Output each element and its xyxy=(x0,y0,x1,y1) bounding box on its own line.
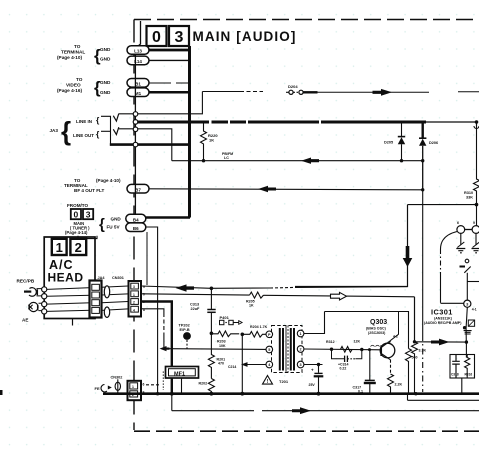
MF1 stub to bus xyxy=(181,378,183,394)
ceramic filter X302 xyxy=(464,320,475,334)
wire y160 xyxy=(172,160,423,162)
svg-text:GND: GND xyxy=(100,57,111,62)
svg-text:FE: FE xyxy=(95,386,100,391)
svg-text:REC/PB: REC/PB xyxy=(17,279,35,284)
svg-text:4-2: 4-2 xyxy=(393,335,398,339)
T201 pin 1 xyxy=(297,330,304,337)
ground RT302 xyxy=(472,249,479,253)
svg-text:B7: B7 xyxy=(135,187,141,192)
thick shield wire bottom xyxy=(110,143,190,146)
wire x242 down to bus xyxy=(241,334,243,393)
connector oval M1 xyxy=(127,88,149,97)
border hook at title left xyxy=(135,21,141,49)
svg-text:D205: D205 xyxy=(384,141,393,145)
collector wire up to y311 xyxy=(391,312,399,341)
svg-text:AE: AE xyxy=(22,318,28,323)
T201 windings and core xyxy=(280,326,294,373)
svg-text:BF 4 OUT FLT: BF 4 OUT FLT xyxy=(74,188,104,193)
svg-text:C313: C313 xyxy=(190,303,199,307)
svg-text:FROM/TO: FROM/TO xyxy=(67,203,89,208)
row4 wire down xyxy=(141,309,164,349)
svg-text:3: 3 xyxy=(86,209,91,219)
label 4-2 xyxy=(393,335,398,339)
wire down to pin3 xyxy=(466,282,468,301)
warning triangle xyxy=(263,376,273,386)
shield bracket line in/out xyxy=(101,116,111,144)
svg-text:TERMINAL: TERMINAL xyxy=(61,50,85,55)
svg-text:E/P-B: E/P-B xyxy=(180,328,190,332)
svg-text:5: 5 xyxy=(268,348,270,352)
svg-text:B4: B4 xyxy=(133,217,139,222)
svg-text:6: 6 xyxy=(143,382,145,386)
svg-text:R312: R312 xyxy=(326,340,335,344)
wire y410 with right arrow xyxy=(172,394,479,414)
twisted pair loop 2 xyxy=(104,307,109,317)
svg-text:(AUDIO REC/PB AMP): (AUDIO REC/PB AMP) xyxy=(424,321,462,325)
capacitor C317 xyxy=(353,350,376,394)
wire x414 down xyxy=(414,297,416,342)
svg-text:CN302: CN302 xyxy=(111,376,123,380)
wire pin2 right xyxy=(304,348,381,351)
wire B6 5V to right then down xyxy=(146,227,158,394)
svg-text:R202: R202 xyxy=(199,382,208,386)
svg-text:R204 1.7K: R204 1.7K xyxy=(250,325,268,329)
pin number labels CN301 xyxy=(133,285,145,312)
svg-text:(Page 4-10): (Page 4-10) xyxy=(57,55,82,60)
svg-text:1: 1 xyxy=(133,293,135,297)
T201 pin 2 xyxy=(297,346,304,353)
GND bus vertical thick xyxy=(188,46,191,218)
svg-text:6: 6 xyxy=(457,221,459,225)
MF1 box xyxy=(166,367,199,379)
svg-text:MAIN [AUDIO]: MAIN [AUDIO] xyxy=(193,29,297,44)
svg-text:R310: R310 xyxy=(464,191,473,195)
label AE xyxy=(22,318,28,323)
CR box stub to bus xyxy=(461,378,463,394)
junction dot pin3 xyxy=(317,363,320,366)
svg-text:4-1: 4-1 xyxy=(472,308,477,312)
svg-text:HEAD: HEAD xyxy=(48,271,84,285)
IC pin circle 3 xyxy=(464,300,477,311)
test point TP202 xyxy=(179,324,191,349)
svg-text:LC: LC xyxy=(224,156,229,160)
ferrite bead marks on base wire xyxy=(371,345,380,346)
bottom bus thick xyxy=(103,392,479,395)
resistor R310 right column xyxy=(464,124,479,205)
svg-text:TP202: TP202 xyxy=(179,324,190,328)
digit box 1 xyxy=(52,239,67,255)
resistor R316 xyxy=(465,355,473,378)
capacitor C318 xyxy=(451,355,460,378)
text A/C HEAD xyxy=(48,258,84,285)
title text MAIN [AUDIO] xyxy=(193,29,297,44)
resistor R220 xyxy=(201,122,219,161)
svg-text:0: 0 xyxy=(143,293,145,297)
wire y349 left segment to T201 pin5 xyxy=(169,348,266,351)
wire y341 with right arrow xyxy=(415,339,467,346)
svg-text:GND: GND xyxy=(100,80,111,85)
stub bus to y400 line xyxy=(407,394,409,401)
T201 pin 4 xyxy=(266,361,273,368)
arrow left on y160 wire xyxy=(301,158,319,164)
label on y160 wire xyxy=(222,152,233,160)
main thick bus y122 xyxy=(0,0,1,1)
capacitor C313 xyxy=(190,288,216,333)
svg-text:10K: 10K xyxy=(219,344,226,348)
thick left arrow row1 xyxy=(176,284,195,291)
transistor Q303 xyxy=(380,340,395,360)
junction dots pin2 wire xyxy=(330,348,371,352)
junction dot resistor bottom xyxy=(202,159,205,162)
edge artifact left xyxy=(0,390,3,395)
svg-text:GND: GND xyxy=(100,90,111,95)
curve from trimmer to x440 xyxy=(441,232,464,304)
jack contact V line out xyxy=(113,127,119,134)
A/C HEAD box xyxy=(44,237,95,319)
resistor R312 inline xyxy=(326,340,360,353)
connector oval L13 xyxy=(127,46,149,55)
svg-text:1K: 1K xyxy=(209,138,214,143)
wires inside A/C head box xyxy=(47,288,92,312)
transformer T201 dashed box xyxy=(272,326,303,373)
svg-text:T201: T201 xyxy=(279,379,289,384)
connector CN302 xyxy=(128,381,145,400)
svg-text:LINE OUT: LINE OUT xyxy=(73,133,94,138)
svg-text:1: 1 xyxy=(300,332,302,336)
border: left dashed PCB boundary xyxy=(133,20,135,431)
transistor Q303 labels xyxy=(366,319,387,335)
title digit box 3 xyxy=(169,26,189,46)
bus right end hook xyxy=(474,120,479,128)
connector oval B6 xyxy=(126,223,146,232)
row2 wire REC signal long xyxy=(141,294,415,297)
svg-text:IC301: IC301 xyxy=(431,308,453,317)
border: bottom dashed PCB boundary xyxy=(134,430,479,432)
wire M1 to GND bus (thick) xyxy=(149,91,190,94)
emitter chain down xyxy=(388,360,403,394)
T201 pin 5 xyxy=(266,346,273,353)
wire y204 xyxy=(408,204,477,206)
svg-text:GND: GND xyxy=(111,217,122,222)
signal wire with big down arrow x407 xyxy=(295,205,412,287)
arrow right on y92 wire xyxy=(373,89,393,96)
connector oval B7 xyxy=(127,184,149,193)
wire L13 to GND bus (thick) xyxy=(149,49,190,52)
trimmer RT302 xyxy=(472,221,479,248)
svg-text:(Page 4-16): (Page 4-16) xyxy=(57,88,82,93)
FE head xyxy=(95,379,121,393)
svg-text:25V: 25V xyxy=(309,383,316,387)
svg-text:VIDEO: VIDEO xyxy=(66,83,81,88)
svg-text:R316: R316 xyxy=(465,373,473,377)
svg-text:B1: B1 xyxy=(135,82,141,87)
wire L14 xyxy=(149,59,189,61)
row3 GND wire thick L xyxy=(141,302,172,394)
svg-text:0.22: 0.22 xyxy=(340,367,347,371)
wire B1 xyxy=(149,82,189,84)
border: top dashed PCB boundary xyxy=(134,19,479,21)
svg-text:L13: L13 xyxy=(134,49,142,54)
IC301 labels xyxy=(424,308,462,325)
junction dot y190 xyxy=(421,188,424,191)
node circles on box edge xyxy=(42,287,47,314)
trimmer RT301 xyxy=(457,221,465,248)
junction dot x414 y341 xyxy=(413,340,416,343)
junction dot y342 xyxy=(465,340,468,343)
label T201 xyxy=(279,379,289,384)
svg-text:1K: 1K xyxy=(249,304,254,308)
label: TO VIDEO (Page 4-16) xyxy=(57,77,111,97)
svg-text:1: 1 xyxy=(132,385,134,389)
junction dot row1/C313 xyxy=(210,287,214,291)
connector JA4 xyxy=(90,276,106,318)
resistor R315 xyxy=(412,342,427,394)
label REC/PB xyxy=(17,279,35,284)
head symbol REC/PB xyxy=(24,288,42,297)
svg-text:!: ! xyxy=(267,379,269,385)
node circle jack2 xyxy=(133,120,138,125)
wire from D204 right xyxy=(303,91,479,94)
svg-text:{: { xyxy=(99,216,105,233)
resistor R313 osc feedback xyxy=(406,349,418,394)
wire B7 long to right xyxy=(149,189,423,190)
svg-text:2.2K: 2.2K xyxy=(395,383,403,387)
node circle jack4 xyxy=(133,142,138,147)
svg-text:MF1: MF1 xyxy=(174,371,185,377)
component X301 with slash xyxy=(460,259,471,281)
svg-text:3: 3 xyxy=(175,29,184,46)
wire down into CR box xyxy=(465,342,467,357)
jumper D204 xyxy=(286,84,303,94)
svg-text:D204: D204 xyxy=(288,84,298,89)
bracket under page ref xyxy=(78,236,97,239)
svg-text:Q303: Q303 xyxy=(370,319,387,326)
svg-text:CN301: CN301 xyxy=(112,276,124,280)
connector oval B4 xyxy=(126,214,146,223)
box bottom tick xyxy=(72,319,74,326)
connector oval B1 xyxy=(127,79,149,88)
svg-text:2: 2 xyxy=(133,301,135,305)
svg-text:9: 9 xyxy=(473,221,475,225)
wire pin3 down xyxy=(466,307,467,342)
wire stub x147 xyxy=(146,232,148,285)
label: TO TERMINAL (Page 4-10) xyxy=(57,44,111,65)
svg-text:D206: D206 xyxy=(429,141,438,145)
wire line-in tip xyxy=(119,92,203,114)
svg-text:JA3: JA3 xyxy=(50,128,59,133)
svg-text:C214: C214 xyxy=(228,365,236,369)
digit box 2 xyxy=(70,239,86,255)
diode D205 xyxy=(384,122,405,161)
junction dots on y160 xyxy=(400,159,425,162)
row1 wire PB signal xyxy=(141,286,408,288)
connector CN301 xyxy=(112,276,141,316)
node circle jack3 xyxy=(133,127,138,132)
GND bus bottom horizontal to B4 xyxy=(146,216,190,219)
svg-text:3: 3 xyxy=(300,363,302,367)
junction dot (476,205) xyxy=(475,203,479,207)
svg-text:GND: GND xyxy=(100,47,111,52)
CR network box xyxy=(450,355,475,379)
T201 pin 3 xyxy=(297,361,304,368)
svg-text:P401: P401 xyxy=(220,315,230,320)
svg-text:2: 2 xyxy=(75,240,82,255)
small left arrow at row4 corner xyxy=(160,346,170,351)
capacitor C315 electrolytic xyxy=(309,365,324,394)
wire line-out tip to corner xyxy=(119,129,172,161)
svg-text:3.3K: 3.3K xyxy=(419,349,427,353)
ground RT301 xyxy=(456,249,465,253)
jack contact V line in xyxy=(113,114,119,121)
svg-text:TO: TO xyxy=(74,44,81,49)
plug P401 xyxy=(220,315,243,325)
resistor R203 xyxy=(213,331,239,348)
svg-text:33K: 33K xyxy=(466,196,473,200)
connector oval L14 xyxy=(127,56,149,65)
resistor R202 vertical xyxy=(199,379,215,394)
main left vertical wire xyxy=(134,54,136,215)
svg-text:B6: B6 xyxy=(133,226,139,231)
C314 loop branch xyxy=(332,349,362,370)
digit box 3 small xyxy=(83,209,93,219)
head symbol AE (erase) xyxy=(28,302,42,311)
svg-text:1: 1 xyxy=(56,240,63,255)
node circle jack1 xyxy=(133,112,138,117)
twisted pair loop 1 xyxy=(104,286,109,298)
svg-text:0: 0 xyxy=(74,209,79,219)
svg-text:(Page 4-10): (Page 4-10) xyxy=(96,178,121,183)
junction dot R203/R204 xyxy=(241,333,245,337)
svg-text:+: + xyxy=(311,367,314,372)
resistor R205 inline xyxy=(246,292,264,308)
svg-text:LINE IN: LINE IN xyxy=(76,119,92,124)
wire x476 down to trimmer xyxy=(476,205,478,226)
title digit box 0 xyxy=(147,26,167,46)
label CN302 xyxy=(111,376,123,380)
wire pin1 up to y311 xyxy=(304,312,325,334)
svg-text:3: 3 xyxy=(133,285,135,289)
resistor R201 vertical on x211 xyxy=(208,333,225,378)
osc feedback wire y311 xyxy=(325,312,409,349)
wire pin3 right xyxy=(304,364,323,366)
label JA3 xyxy=(50,115,101,146)
label TO TERMINAL B7 xyxy=(64,178,121,193)
svg-text:0: 0 xyxy=(152,29,161,46)
svg-text:(Page 4-14): (Page 4-14) xyxy=(65,230,88,235)
wire x423 down xyxy=(422,190,424,392)
svg-text:C318: C318 xyxy=(451,373,459,377)
svg-text:2: 2 xyxy=(300,348,302,352)
junction dot filter tap xyxy=(463,326,466,329)
label FROM/TO 0 3 MAIN TUNER xyxy=(65,203,121,235)
svg-text:470: 470 xyxy=(218,362,224,366)
svg-text:(2SC2603): (2SC2603) xyxy=(368,331,386,335)
svg-text:TO: TO xyxy=(76,77,83,82)
svg-text:4: 4 xyxy=(133,308,135,312)
diode D206 xyxy=(419,122,438,190)
arrow left on B7 wire xyxy=(258,186,276,192)
wire y400 xyxy=(408,399,479,401)
digit box 0 small xyxy=(71,209,81,219)
link between trimmers xyxy=(465,229,472,231)
junction dot C313/R203 xyxy=(210,332,214,336)
svg-text:P: P xyxy=(268,333,271,337)
svg-text:{: { xyxy=(61,116,71,146)
svg-text:22uF: 22uF xyxy=(191,307,201,311)
open arrow right row2 xyxy=(331,292,347,300)
dotted shield line left of MF1 xyxy=(162,372,164,391)
junction dots on bottom bus xyxy=(156,392,418,396)
wire y281 to edge xyxy=(467,281,479,283)
svg-text:12K: 12K xyxy=(354,340,361,344)
T201 pin P xyxy=(266,331,273,338)
CN302 pin1 dashed wire xyxy=(146,384,160,386)
wires JA4 to CN301 xyxy=(102,286,129,310)
resistor R204 xyxy=(242,325,267,337)
svg-text:JA4: JA4 xyxy=(98,276,106,280)
wire pin4 to left with arrow xyxy=(228,362,266,369)
svg-text:FU 5V: FU 5V xyxy=(107,224,121,229)
node stub line y91 xyxy=(202,91,263,93)
